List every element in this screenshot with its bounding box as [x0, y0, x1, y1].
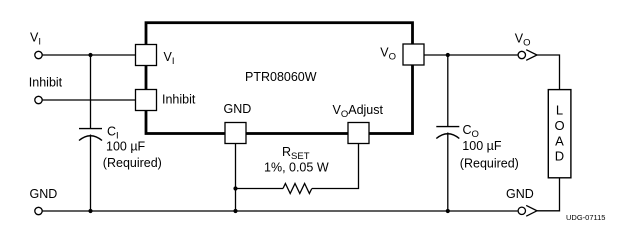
load block	[548, 90, 571, 178]
pin box V_O Adjust	[348, 123, 369, 144]
svg-text:Inhibit: Inhibit	[29, 76, 63, 90]
wire C_I lower leg to ground rail	[90, 135, 92, 212]
pin box V_O	[403, 44, 424, 65]
svg-text:A: A	[555, 133, 564, 148]
svg-text:D: D	[555, 149, 564, 164]
wire LOAD bottom to GND output	[537, 178, 560, 211]
resistor R_SET zigzag	[283, 184, 312, 194]
junction V_O / C_O	[446, 53, 450, 57]
junction GND pin / R_SET	[233, 186, 237, 190]
terminal GND output	[518, 205, 537, 216]
wire V_I input to pin	[42, 54, 135, 56]
wire C_O upper leg	[447, 55, 449, 126]
pin box GND	[225, 123, 246, 144]
module U1 PTR08060W outline	[146, 23, 413, 134]
svg-text:PTR08060W: PTR08060W	[245, 70, 317, 84]
wire V_O pin to output	[424, 54, 518, 56]
wire resistor to V_O Adjust leg	[312, 144, 359, 189]
svg-text:GND: GND	[506, 187, 534, 201]
svg-text:UDG-07115: UDG-07115	[566, 213, 605, 222]
svg-text:GND: GND	[224, 102, 252, 116]
svg-text:100 µF: 100 µF	[462, 139, 502, 153]
svg-text:1%, 0.05 W: 1%, 0.05 W	[264, 161, 329, 175]
wire C_O lower leg to ground rail	[447, 133, 449, 212]
svg-text:Inhibit: Inhibit	[162, 93, 196, 107]
terminal Inhibit input	[35, 96, 42, 103]
terminal V_I input	[35, 51, 42, 58]
wire Inhibit input to pin	[42, 99, 135, 101]
svg-text:(Required): (Required)	[103, 156, 162, 170]
pin box V_I	[136, 45, 157, 66]
junction GND pin leg / ground rail	[233, 209, 237, 213]
wire R_SET node down to ground rail	[235, 189, 237, 212]
junction C_I / ground rail	[88, 209, 92, 213]
pin box Inhibit	[136, 90, 157, 111]
svg-text:(Required): (Required)	[460, 157, 519, 171]
svg-text:100 µF: 100 µF	[106, 139, 146, 153]
wire R_SET node to resistor	[236, 188, 284, 190]
wire GND pin down to R_SET node	[235, 144, 237, 189]
wire V_O output to LOAD	[537, 55, 560, 90]
capacitor C_I	[79, 129, 102, 141]
terminal V_O output	[518, 50, 537, 61]
wire input rail vertical (V_I junction down to C_I)	[90, 55, 92, 128]
svg-text:L: L	[556, 103, 563, 118]
wire ground rail	[42, 210, 518, 212]
svg-text:GND: GND	[30, 187, 58, 201]
junction C_O / ground rail	[446, 209, 450, 213]
svg-text:O: O	[554, 118, 564, 133]
junction V_I / C_I	[88, 53, 92, 57]
capacitor C_O	[436, 127, 459, 139]
terminal GND input	[35, 207, 42, 214]
